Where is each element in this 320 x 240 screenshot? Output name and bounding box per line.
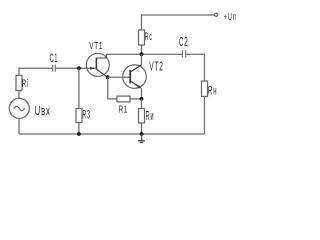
wire Ru to rail — [141, 123, 143, 134]
svg-text:R: R — [145, 30, 149, 43]
resistor R1 — [117, 96, 130, 115]
junction VT1 source node — [106, 75, 110, 79]
source Uвх — [9, 98, 50, 118]
resistor Rн — [202, 81, 217, 97]
svg-text:в: в — [41, 104, 45, 119]
svg-text:и: и — [150, 110, 153, 124]
wire R3 branch — [78, 68, 80, 108]
junction node gate — [77, 66, 81, 70]
wire emitter node to Ru — [141, 99, 143, 109]
wire VT2 collector to drain node — [141, 54, 143, 65]
svg-text:3: 3 — [87, 108, 90, 121]
svg-text:R: R — [146, 110, 150, 124]
wire input corner to C1 — [19, 68, 52, 75]
wire C2 to right branch — [186, 54, 204, 81]
svg-text:1: 1 — [99, 39, 103, 51]
wire top supply rail — [142, 15, 215, 30]
wire gate node to VT1 gate — [79, 67, 96, 69]
svg-text:п: п — [233, 10, 236, 22]
transistor VT1 — [86, 39, 109, 77]
svg-text:+: + — [224, 10, 227, 22]
resistor Rc — [139, 30, 153, 45]
junction emitter node — [140, 97, 144, 101]
terminal +Uп — [215, 10, 236, 22]
svg-text:i: i — [27, 77, 28, 90]
junction ground node — [140, 132, 144, 136]
wire bottom rail — [19, 133, 205, 135]
wire Rc bottom to node — [141, 45, 143, 54]
svg-text:н: н — [213, 84, 216, 97]
svg-text:V: V — [89, 39, 93, 51]
wire source node to VT2 base — [108, 76, 130, 78]
svg-text:c: c — [149, 30, 152, 43]
svg-text:C: C — [50, 52, 54, 65]
svg-text:R: R — [208, 84, 213, 97]
resistor Rи — [139, 109, 154, 124]
wire Ri to source circle — [18, 91, 20, 99]
wire VT2 emitter to emitter node — [141, 88, 143, 99]
junction drain node — [140, 52, 144, 56]
svg-text:T: T — [155, 61, 159, 75]
wire source node down to R1 — [108, 77, 117, 99]
junction R3 rail — [77, 132, 81, 136]
resistor Ri — [16, 76, 28, 91]
wire drain node to C2 — [142, 53, 183, 55]
svg-text:R: R — [119, 103, 124, 115]
svg-text:1: 1 — [124, 103, 128, 115]
svg-text:C: C — [179, 36, 183, 50]
wire right branch bottom — [204, 97, 206, 135]
svg-text:R: R — [82, 108, 86, 121]
wire R1 to emitter node — [130, 98, 142, 100]
svg-text:2: 2 — [159, 61, 163, 75]
svg-text:U: U — [228, 10, 232, 22]
svg-text:T: T — [94, 39, 98, 51]
capacitor C2 — [179, 36, 188, 58]
svg-text:R: R — [22, 77, 26, 90]
wire VT1 drain to node — [106, 53, 141, 55]
resistor R3 — [76, 108, 90, 122]
capacitor C1 — [50, 52, 58, 72]
svg-text:U: U — [35, 104, 41, 119]
svg-text:х: х — [46, 104, 50, 119]
wire R3 to rail — [78, 123, 80, 135]
wire source to rail — [18, 118, 20, 134]
svg-text:1: 1 — [54, 52, 57, 65]
ground — [138, 134, 145, 143]
svg-text:2: 2 — [184, 36, 187, 50]
transistor VT2 — [123, 61, 163, 89]
svg-text:V: V — [149, 61, 154, 75]
wire C1 to gate node — [56, 67, 79, 69]
